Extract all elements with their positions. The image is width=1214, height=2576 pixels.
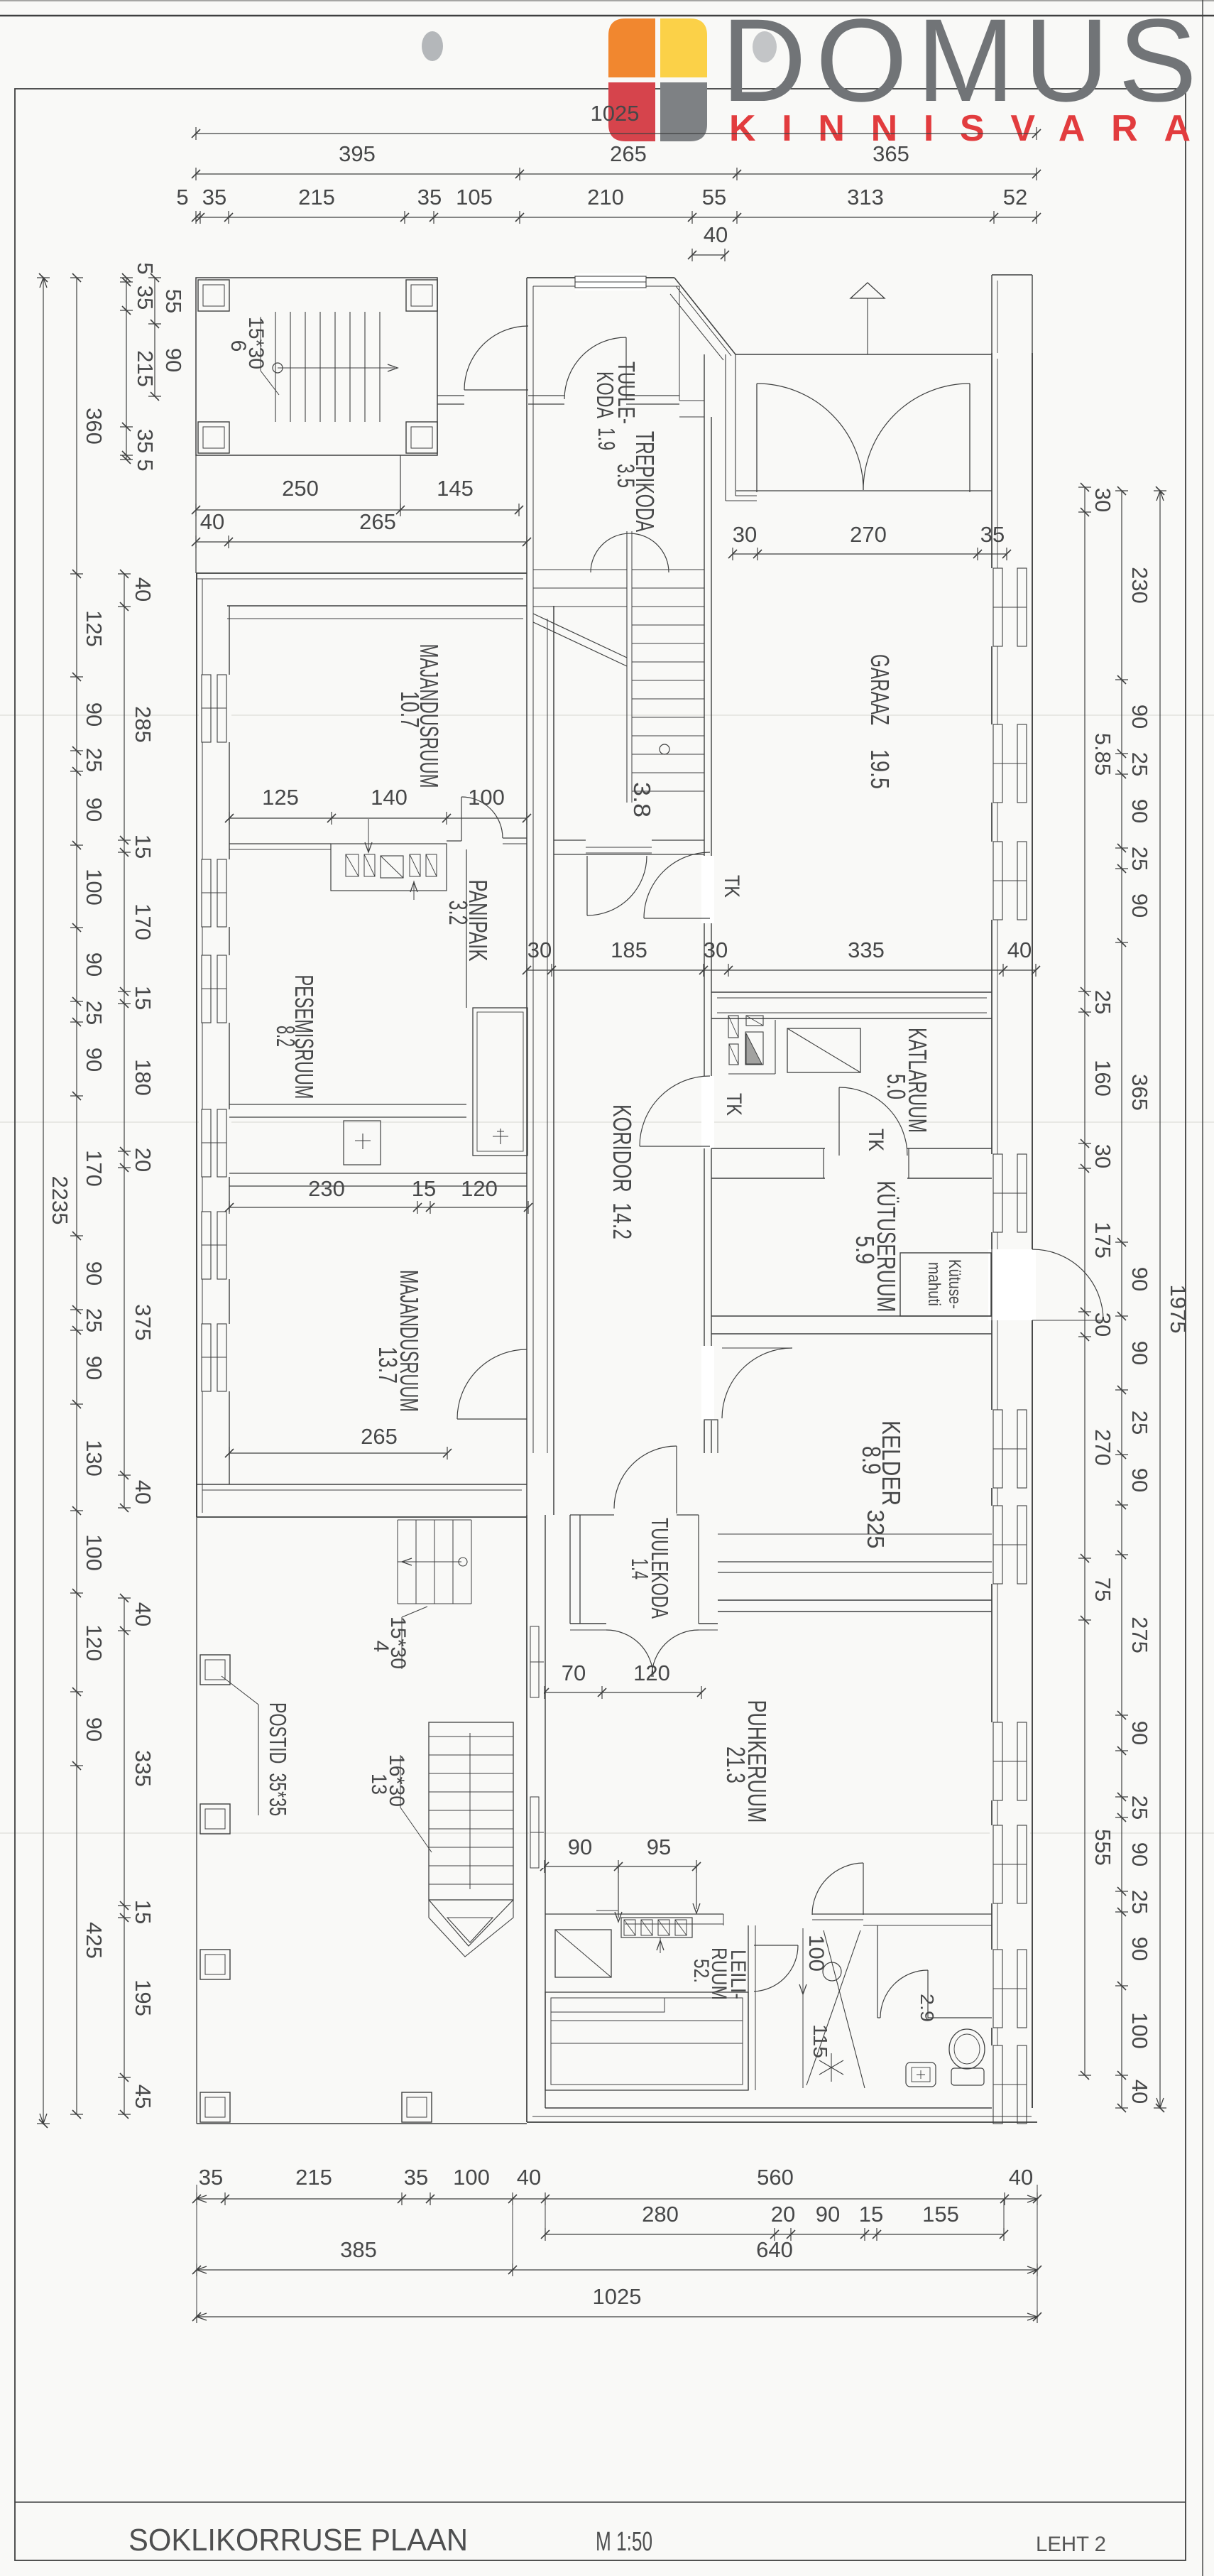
svg-text:2235: 2235 [48,1176,72,1225]
svg-text:40: 40 [131,1480,155,1504]
svg-text:15: 15 [131,835,155,859]
svg-text:35: 35 [133,286,158,310]
svg-text:90: 90 [568,1835,592,1859]
svg-text:270: 270 [850,522,887,547]
svg-text:40: 40 [517,2165,541,2190]
svg-text:52: 52 [1003,185,1027,210]
svg-text:335: 335 [131,1750,155,1787]
svg-text:75: 75 [1090,1577,1115,1602]
svg-text:40: 40 [131,1602,155,1626]
svg-text:TK: TK [864,1129,887,1151]
svg-text:5.85: 5.85 [1090,733,1115,776]
svg-text:35: 35 [133,429,158,453]
svg-text:55: 55 [161,289,186,313]
svg-text:19.5: 19.5 [865,749,895,789]
svg-text:TK: TK [720,875,743,898]
svg-text:8.2: 8.2 [271,1026,300,1047]
svg-text:100: 100 [1127,2012,1152,2049]
svg-text:560: 560 [757,2165,794,2190]
svg-text:90: 90 [1127,1267,1152,1291]
svg-text:90: 90 [1127,799,1152,823]
svg-text:170: 170 [82,1150,106,1187]
svg-text:365: 365 [1127,1074,1152,1111]
svg-text:120: 120 [82,1624,106,1661]
svg-text:210: 210 [587,185,624,210]
svg-text:3.2: 3.2 [444,901,473,925]
svg-text:313: 313 [847,185,884,210]
svg-text:30: 30 [527,938,552,962]
svg-text:40: 40 [1009,2165,1033,2190]
svg-text:230: 230 [308,1176,345,1201]
svg-text:25: 25 [1090,990,1115,1014]
svg-text:35: 35 [980,522,1005,547]
svg-text:25: 25 [82,1001,106,1025]
svg-text:3.8: 3.8 [629,782,655,817]
svg-text:180: 180 [131,1059,155,1096]
svg-text:40: 40 [1007,938,1032,962]
svg-text:270: 270 [1090,1429,1115,1466]
svg-text:M 1:50: M 1:50 [596,2527,652,2557]
svg-text:250: 250 [282,476,319,501]
svg-text:280: 280 [642,2202,679,2227]
svg-text:30: 30 [1090,1144,1115,1168]
svg-text:555: 555 [1090,1829,1115,1866]
svg-text:35: 35 [199,2165,223,2190]
svg-text:20: 20 [771,2202,795,2227]
svg-text:5.9: 5.9 [851,1236,880,1264]
svg-text:90: 90 [82,952,106,977]
svg-text:90: 90 [82,1261,106,1286]
svg-text:25: 25 [1127,847,1152,871]
svg-text:3.5: 3.5 [612,464,639,488]
svg-text:8.9: 8.9 [857,1446,886,1474]
svg-text:335: 335 [848,938,885,962]
svg-text:5: 5 [176,185,188,210]
svg-text:90: 90 [82,702,106,727]
svg-text:125: 125 [82,610,106,647]
svg-text:100: 100 [82,869,106,906]
svg-text:6: 6 [226,340,250,352]
svg-text:140: 140 [371,785,408,810]
svg-text:35: 35 [417,185,442,210]
svg-text:70: 70 [562,1661,586,1685]
svg-text:15: 15 [859,2202,883,2227]
svg-text:90: 90 [161,348,186,372]
svg-text:375: 375 [131,1304,155,1341]
svg-text:30: 30 [704,938,728,962]
svg-text:20: 20 [131,1148,155,1172]
svg-text:170: 170 [131,903,155,940]
svg-text:15: 15 [412,1176,436,1201]
svg-text:385: 385 [340,2237,377,2262]
svg-text:1.9: 1.9 [594,428,620,450]
svg-text:90: 90 [1127,893,1152,918]
svg-text:40: 40 [200,509,224,534]
svg-text:40: 40 [1127,2080,1152,2104]
svg-text:10.7: 10.7 [395,691,425,728]
svg-text:90: 90 [1127,1721,1152,1745]
svg-text:90: 90 [1127,1341,1152,1365]
svg-text:90: 90 [82,798,106,822]
svg-text:285: 285 [131,706,155,743]
svg-text:5: 5 [133,459,158,471]
svg-text:90: 90 [82,1356,106,1380]
svg-text:MAJANDUSRUUM: MAJANDUSRUUM [395,1270,424,1412]
svg-text:395: 395 [339,141,376,166]
svg-text:25: 25 [1127,1411,1152,1435]
svg-text:100: 100 [82,1534,106,1571]
svg-text:KORIDOR 14.2: KORIDOR 14.2 [608,1104,637,1239]
svg-text:25: 25 [1127,752,1152,776]
svg-text:145: 145 [437,476,474,501]
svg-text:640: 640 [756,2237,793,2262]
svg-text:265: 265 [610,141,647,166]
svg-text:POSTID 35*35: POSTID 35*35 [265,1702,291,1816]
svg-text:90: 90 [1127,1937,1152,1961]
svg-text:2.9: 2.9 [917,1994,938,2022]
svg-text:55: 55 [702,185,726,210]
svg-text:13: 13 [367,1773,390,1795]
svg-text:4: 4 [369,1641,393,1653]
svg-text:155: 155 [922,2202,959,2227]
svg-text:30: 30 [1090,488,1115,512]
svg-text:15: 15 [131,1900,155,1924]
svg-text:125: 125 [262,785,299,810]
svg-text:13.7: 13.7 [373,1347,403,1384]
svg-text:mahuti: mahuti [924,1262,944,1306]
svg-text:100: 100 [468,785,505,810]
svg-text:90: 90 [82,1048,106,1072]
svg-text:425: 425 [82,1922,106,1959]
svg-text:215: 215 [295,2165,332,2190]
svg-text:1.4: 1.4 [627,1558,653,1580]
svg-text:90: 90 [82,1717,106,1741]
svg-text:KODA: KODA [592,371,618,418]
svg-text:40: 40 [704,222,728,247]
svg-text:105: 105 [456,185,493,210]
svg-text:5: 5 [133,262,158,274]
svg-text:LEHT 2: LEHT 2 [1036,2533,1106,2556]
svg-text:90: 90 [1127,1842,1152,1866]
svg-text:360: 360 [82,408,106,445]
svg-text:215: 215 [133,350,158,387]
svg-text:5.0: 5.0 [882,1074,911,1099]
svg-text:90: 90 [816,2202,840,2227]
svg-text:35: 35 [202,185,226,210]
svg-text:25: 25 [1127,1795,1152,1820]
svg-text:100: 100 [453,2165,490,2190]
svg-text:325: 325 [863,1510,889,1549]
svg-text:40: 40 [131,577,155,602]
svg-text:115: 115 [809,2024,831,2058]
svg-text:Kütuse-: Kütuse- [945,1259,964,1309]
svg-text:25: 25 [1127,1890,1152,1914]
svg-text:265: 265 [361,1424,398,1449]
svg-text:160: 160 [1090,1060,1115,1097]
svg-text:90: 90 [1127,705,1152,729]
svg-text:175: 175 [1090,1222,1115,1259]
svg-text:90: 90 [1127,1468,1152,1492]
svg-text:1025: 1025 [593,2284,642,2309]
svg-text:52.: 52. [689,1959,713,1983]
svg-text:45: 45 [131,2085,155,2109]
svg-text:365: 365 [873,141,909,166]
svg-text:265: 265 [359,509,396,534]
svg-text:SOKLIKORRUSE PLAAN: SOKLIKORRUSE PLAAN [128,2523,468,2558]
svg-text:120: 120 [461,1176,498,1201]
svg-text:195: 195 [131,1979,155,2016]
svg-text:30: 30 [733,522,757,547]
svg-text:185: 185 [611,938,647,962]
svg-text:35: 35 [404,2165,428,2190]
svg-text:230: 230 [1127,567,1152,604]
svg-text:TK: TK [722,1093,745,1116]
svg-text:1975: 1975 [1166,1285,1191,1334]
svg-text:1025: 1025 [591,101,640,126]
svg-text:275: 275 [1127,1616,1152,1653]
svg-text:GARAAZ: GARAAZ [865,654,895,725]
svg-text:130: 130 [82,1440,106,1477]
svg-text:15: 15 [131,986,155,1010]
svg-text:25: 25 [82,1308,106,1332]
svg-text:25: 25 [82,748,106,772]
svg-text:215: 215 [298,185,335,210]
svg-text:21.3: 21.3 [721,1746,750,1783]
svg-text:95: 95 [647,1835,671,1859]
